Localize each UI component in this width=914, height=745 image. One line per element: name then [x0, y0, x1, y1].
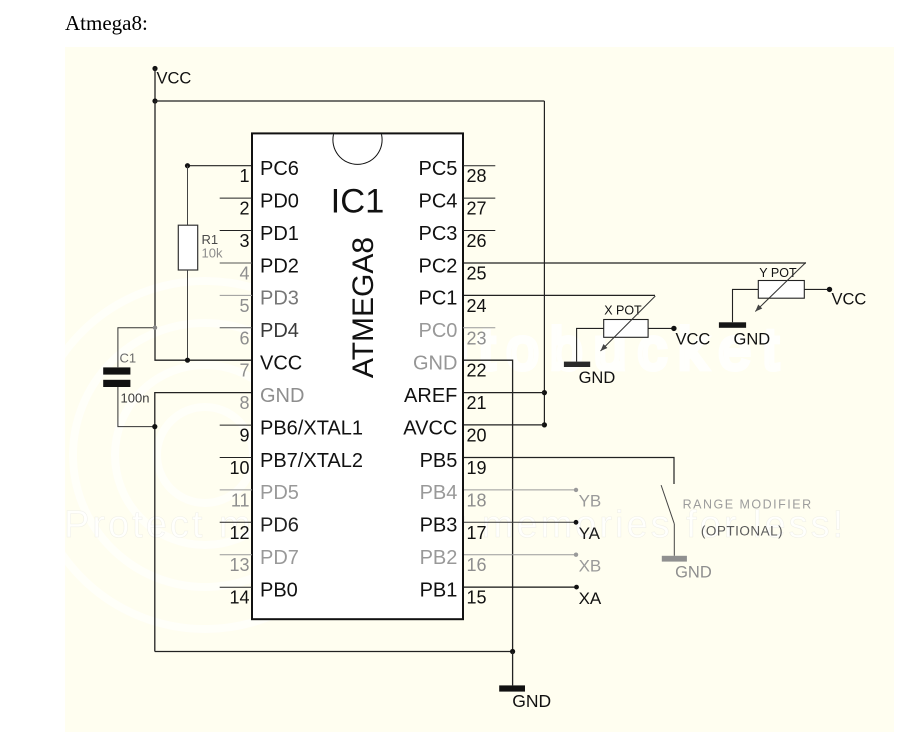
svg-text:PB3: PB3 — [420, 515, 458, 537]
svg-text:PD1: PD1 — [260, 223, 299, 245]
node C1 top tap on VCC line — [153, 326, 157, 330]
wire AREF pin21 — [463, 392, 544, 394]
svg-text:GND: GND — [675, 563, 712, 581]
potentiometer Y POT — [733, 263, 830, 323]
svg-text:PC3: PC3 — [418, 223, 457, 245]
svg-text:PC4: PC4 — [418, 190, 457, 212]
svg-text:28: 28 — [467, 166, 487, 186]
wire VCC right vertical to AVCC/AREF — [543, 101, 545, 425]
svg-text:PD7: PD7 — [260, 547, 299, 569]
svg-text:24: 24 — [467, 296, 487, 316]
svg-text:13: 13 — [229, 555, 249, 575]
svg-text:17: 17 — [467, 523, 487, 543]
svg-text:ATMEGA8: ATMEGA8 — [347, 237, 380, 378]
svg-text:7: 7 — [239, 361, 249, 381]
svg-text:XB: XB — [579, 557, 602, 576]
wire pin 2 stub — [220, 197, 252, 199]
IC IC1 ATMEGA8 body — [252, 133, 463, 619]
svg-text:PD2: PD2 — [260, 255, 299, 277]
svg-text:21: 21 — [467, 393, 487, 413]
svg-text:PC0: PC0 — [418, 320, 457, 342]
svg-text:(OPTIONAL): (OPTIONAL) — [701, 524, 783, 539]
wire pin 10 stub — [220, 457, 252, 459]
svg-text:PB2: PB2 — [420, 547, 458, 569]
wire pin 3 stub — [220, 230, 252, 232]
svg-text:PB1: PB1 — [420, 580, 458, 602]
wire pin 27 stub — [463, 197, 495, 199]
wire pin 9 stub — [220, 424, 252, 426]
svg-text:11: 11 — [231, 490, 250, 510]
svg-text:PD5: PD5 — [260, 482, 299, 504]
VCC supply symbol top-left — [152, 66, 191, 101]
svg-text:PC1: PC1 — [418, 288, 457, 310]
wire pin25 PC2 to Y POT wiper — [463, 262, 806, 264]
svg-text:10k: 10k — [202, 246, 223, 261]
wire pin19 PB5 to switch — [463, 458, 674, 485]
title text — [65, 11, 148, 36]
wire pin17 to node YA — [463, 520, 601, 543]
svg-text:16: 16 — [467, 555, 487, 575]
svg-text:23: 23 — [467, 328, 487, 348]
svg-text:PC2: PC2 — [418, 255, 457, 277]
wire pin 26 stub — [463, 230, 495, 232]
wire pin 11 stub — [220, 489, 252, 491]
svg-text:VCC: VCC — [157, 69, 192, 87]
svg-text:26: 26 — [467, 231, 487, 251]
svg-text:Y POT: Y POT — [759, 266, 797, 280]
svg-text:14: 14 — [229, 588, 249, 608]
svg-text:PD3: PD3 — [260, 288, 299, 310]
svg-text:VCC: VCC — [676, 330, 711, 348]
svg-text:YB: YB — [579, 492, 602, 511]
wire pin 5 stub — [220, 294, 252, 296]
svg-text:PD4: PD4 — [260, 320, 299, 342]
capacitor C1 — [103, 328, 155, 427]
wire VCC top rail — [152, 98, 544, 103]
ground symbol Y POT — [719, 322, 770, 348]
svg-text:2: 2 — [239, 199, 249, 219]
svg-text:GND: GND — [734, 330, 771, 348]
node bottom rail junction — [510, 649, 515, 654]
svg-text:GND: GND — [260, 385, 304, 407]
potentiometer X POT — [577, 296, 674, 362]
node Y POT VCC — [827, 287, 867, 309]
svg-text:AREF: AREF — [404, 385, 457, 407]
node AVCC junction — [542, 422, 547, 427]
svg-text:12: 12 — [229, 523, 249, 543]
svg-text:C1: C1 — [120, 351, 137, 366]
wire pin 28 stub — [463, 165, 495, 167]
svg-text:22: 22 — [467, 361, 487, 381]
ground symbol switch — [662, 556, 712, 582]
wire pin24 PC1 to X POT wiper — [463, 294, 655, 296]
svg-text:15: 15 — [467, 588, 487, 608]
ground symbol bottom — [499, 652, 551, 711]
node R1 bottom junction on pin7 wire — [185, 358, 190, 363]
svg-text:5: 5 — [239, 296, 249, 316]
switch S1 range modifier — [661, 485, 813, 556]
svg-text:100n: 100n — [121, 391, 150, 406]
svg-text:PC6: PC6 — [260, 158, 299, 180]
wire bottom GND rail — [155, 651, 513, 653]
wire pin8 GND down left side — [155, 393, 252, 652]
node X POT VCC — [671, 326, 710, 349]
node AREF junction — [542, 390, 547, 395]
node R1 top junction — [185, 163, 190, 168]
svg-text:18: 18 — [467, 490, 487, 510]
svg-text:PB4: PB4 — [420, 482, 458, 504]
svg-text:PB5: PB5 — [420, 450, 458, 472]
svg-text:VCC: VCC — [832, 290, 867, 308]
wire pin 13 stub — [220, 554, 252, 556]
wm ripples — [31, 281, 379, 629]
wire AVCC pin20 — [463, 424, 544, 426]
svg-text:10: 10 — [229, 458, 249, 478]
svg-text:19: 19 — [467, 458, 487, 478]
resistor R1 — [178, 166, 223, 361]
wire VCC left vertical to pin7 — [155, 101, 252, 360]
svg-text:25: 25 — [467, 264, 487, 284]
svg-text:20: 20 — [467, 426, 487, 446]
wire pin 12 stub — [220, 521, 252, 523]
wire pin16 to node XB — [463, 553, 601, 576]
svg-text:PB0: PB0 — [260, 580, 298, 602]
svg-text:9: 9 — [239, 426, 249, 446]
svg-text:VCC: VCC — [260, 353, 302, 375]
svg-text:IC1: IC1 — [331, 183, 385, 221]
wire pin 6 stub — [220, 327, 252, 329]
wire pin15 to node XA — [463, 585, 602, 608]
svg-text:PB7/XTAL2: PB7/XTAL2 — [260, 450, 363, 472]
svg-text:GND: GND — [512, 691, 551, 711]
ground symbol X POT — [564, 362, 615, 387]
svg-text:PD6: PD6 — [260, 515, 299, 537]
svg-text:PD0: PD0 — [260, 190, 299, 212]
svg-text:RANGE MODIFIER: RANGE MODIFIER — [683, 497, 813, 511]
svg-text:YA: YA — [579, 524, 601, 543]
wire pin 4 stub — [220, 262, 252, 264]
wire pin22 GND down — [463, 360, 513, 651]
svg-text:3: 3 — [239, 231, 249, 251]
svg-text:GND: GND — [413, 353, 457, 375]
svg-text:8: 8 — [239, 393, 249, 413]
svg-text:4: 4 — [239, 264, 249, 284]
svg-text:XA: XA — [579, 589, 602, 608]
wire pin 14 stub — [220, 586, 252, 588]
svg-text:PC5: PC5 — [418, 158, 457, 180]
svg-text:27: 27 — [467, 199, 487, 219]
wire pin 23 stub — [463, 327, 495, 329]
wire pin18 to node YB — [463, 488, 601, 511]
svg-text:GND: GND — [579, 369, 616, 387]
svg-text:PB6/XTAL1: PB6/XTAL1 — [260, 417, 363, 439]
svg-text:6: 6 — [239, 328, 249, 348]
svg-text:AVCC: AVCC — [403, 417, 457, 439]
wire pin1 to R1 top — [188, 165, 253, 167]
svg-text:1: 1 — [239, 166, 249, 186]
node C1 bottom tap on GND line — [152, 424, 157, 429]
